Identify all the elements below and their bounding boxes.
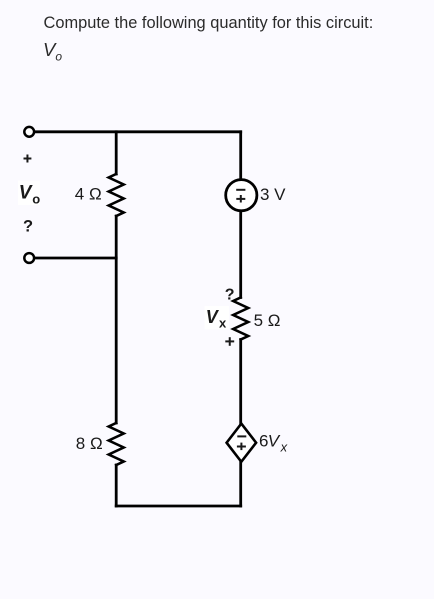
svg-text:5 Ω: 5 Ω	[254, 311, 281, 330]
svg-text:V: V	[268, 432, 281, 451]
svg-text:3 V: 3 V	[260, 185, 286, 204]
svg-text:V: V	[206, 307, 220, 327]
svg-text:o: o	[32, 192, 40, 207]
svg-text:4 Ω: 4 Ω	[75, 185, 102, 204]
svg-text:?: ?	[23, 218, 33, 236]
svg-text:8 Ω: 8 Ω	[76, 434, 103, 453]
svg-text:x: x	[280, 440, 288, 455]
svg-text:x: x	[219, 316, 227, 331]
svg-text:V: V	[19, 182, 33, 203]
svg-text:?: ?	[225, 286, 235, 303]
